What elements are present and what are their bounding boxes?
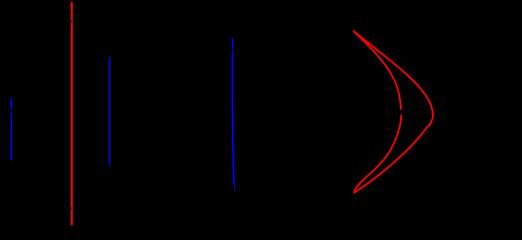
shock line notch artifact upper [71, 20, 72, 22]
wave profile 1 (blue, upper dash segment) [10, 98, 12, 111]
wave profile 1 (blue, lower segment) [10, 113, 12, 161]
wave profile 2 (blue vertical) [109, 57, 111, 166]
fold inner curve lower branch (red) [354, 115, 401, 194]
shock line notch artifact lower [71, 207, 72, 209]
wave profile 3 (blue, upper dash segment) [231, 38, 233, 49]
wave profile 3 (blue, thin bottom tail) [233, 183, 236, 190]
wave profile 3 (blue, lower segment slightly curved) [232, 51, 234, 183]
fold inner curve upper branch (red) [353, 31, 401, 110]
shock line (red, tall vertical) [71, 2, 73, 226]
fold outer curve (red) [353, 31, 433, 193]
